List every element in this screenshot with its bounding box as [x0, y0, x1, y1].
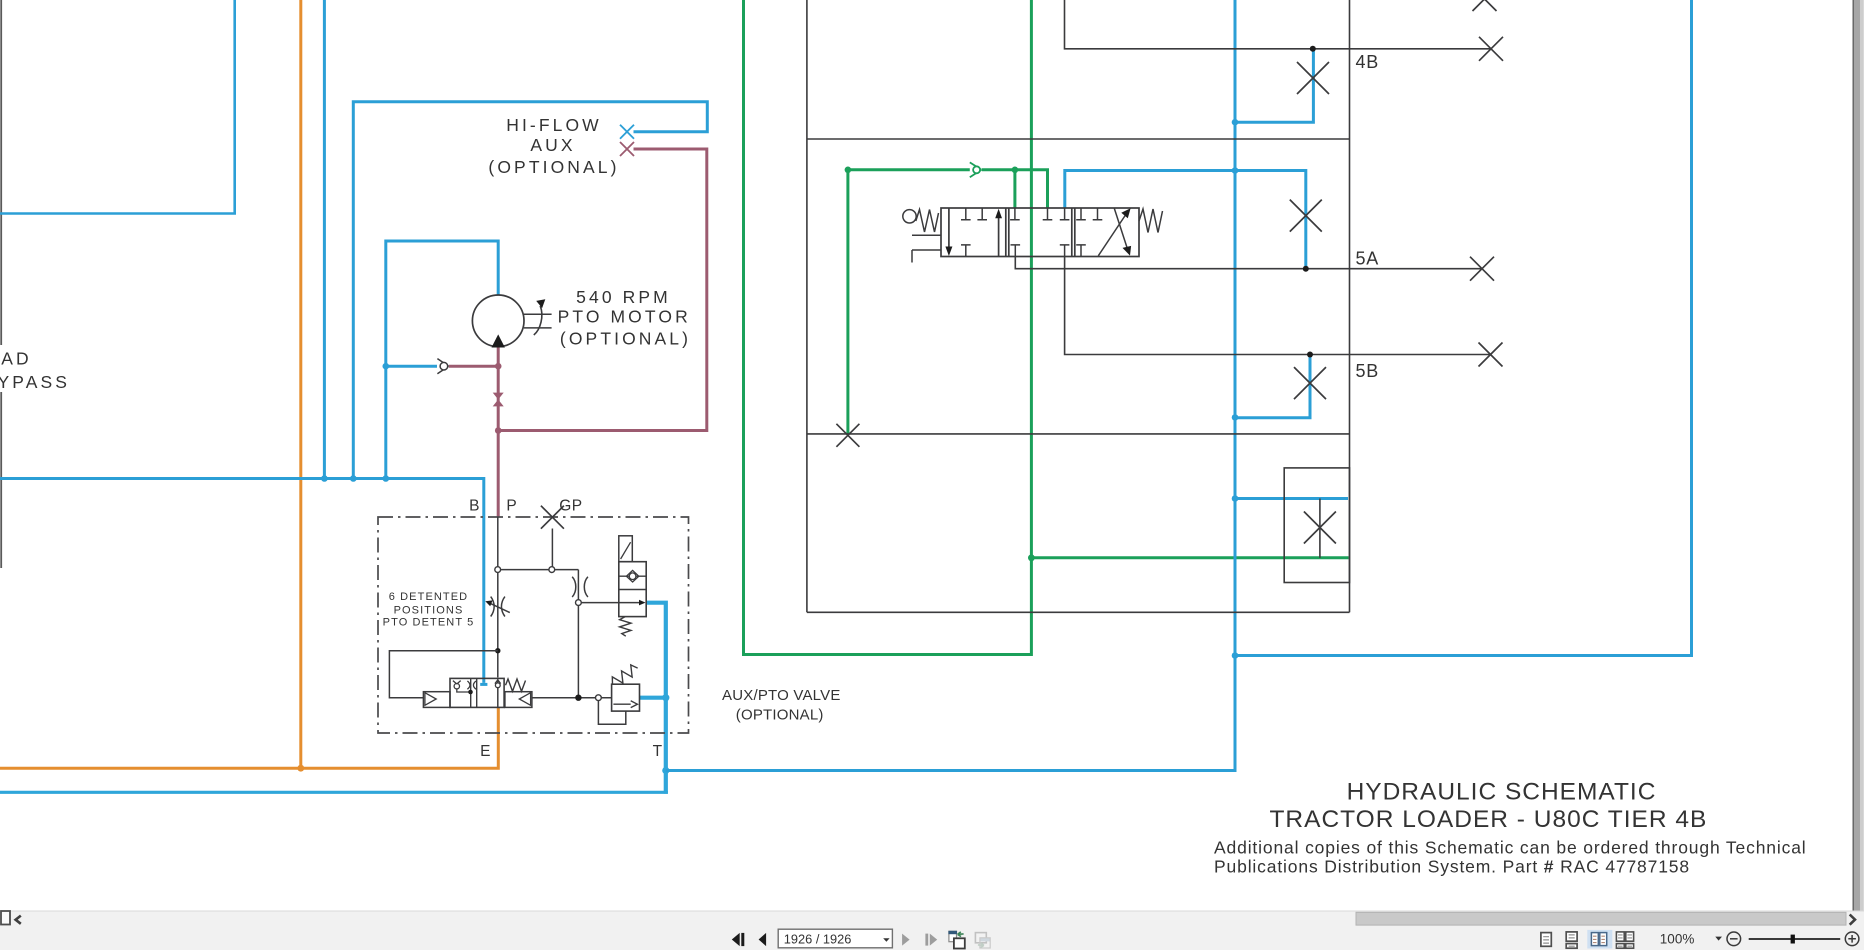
node: X orifice on 5B jumper [1294, 367, 1326, 399]
wire: spool P passage up arrow [497, 679, 499, 707]
node: blue X hi-flow line end [620, 125, 634, 139]
wire: green pilot header with check valve gap [848, 170, 1048, 208]
node: black dot 4B junction [1310, 46, 1316, 52]
svg-text:5A: 5A [1356, 248, 1380, 268]
wire: relief pilot feedback [598, 701, 625, 725]
wire: chamber 1 up arrow [998, 217, 1000, 257]
node: X orifice on 4B jumper [1297, 62, 1329, 94]
wire: blue relief output [640, 696, 666, 700]
node: dot at pilot drop junction [575, 695, 581, 701]
node: chamber 2 top ports [1010, 208, 1069, 220]
component: valve pilot cap circle [903, 210, 916, 223]
node: black dot 5A junction [1303, 266, 1309, 272]
svg-text:PTO MOTOR: PTO MOTOR [558, 307, 691, 327]
component: motor rotation arrow [534, 306, 542, 335]
component: spool return spring [506, 679, 526, 691]
node: junction circle to pilot valve [576, 600, 582, 606]
component: valve right spring [1139, 209, 1163, 233]
component: 540 RPM PTO motor circle [472, 295, 524, 347]
node: X plug at 5B line end [1479, 343, 1503, 367]
node: plugged port X on green line end [836, 424, 859, 447]
node: chamber 1 top ports [961, 208, 987, 220]
node: chamber 2 bottom ports [1011, 245, 1070, 257]
component: relief valve spring tilted [609, 663, 640, 689]
wire: 5A work port line [1015, 257, 1482, 269]
svg-text:E: E [480, 743, 491, 760]
node: GP gauge port X on enclosure [541, 506, 564, 529]
component: pilot solenoid valve body [619, 562, 646, 617]
wire: orifice box internal vertical [1319, 499, 1321, 558]
valve: relief valve body [612, 684, 640, 711]
wire: green tank line left vertical and bottom run [744, 0, 1032, 655]
component: pilot solenoid coil box [619, 536, 633, 562]
wire: blue B-port supply line [0, 479, 484, 683]
viewer: two page continuous icon [1616, 932, 1633, 948]
svg-text:100%: 100% [1660, 932, 1695, 947]
viewer: zoom dropdown caret [1715, 937, 1722, 941]
wire: P-port line inside enclosure [497, 517, 499, 678]
viewer: next page button disabled [902, 934, 910, 946]
wire: maroon hi-flow return [498, 149, 707, 431]
node: X plug at 5A line end [1470, 257, 1494, 281]
viewer: first page button [732, 933, 740, 946]
viewer: scroll right chevron [1850, 915, 1855, 925]
svg-text:P: P [506, 498, 517, 515]
node: green junction dot [1028, 554, 1035, 561]
wire: blue 5A feed [1065, 171, 1306, 269]
node: X orifice inside box [1304, 512, 1336, 544]
component: venturi orifice curves [572, 577, 588, 597]
svg-text:GP: GP [559, 498, 582, 515]
svg-text:Publications Distribution Syst: Publications Distribution System. Part #… [1214, 857, 1690, 877]
wire: blue 4B jumper [1235, 49, 1313, 122]
viewer: scroll left chevron [16, 916, 21, 924]
svg-text:(OPTIONAL): (OPTIONAL) [488, 157, 619, 177]
wire: valve block divider row 1 [807, 138, 1350, 140]
valve: AUX spool valve body [450, 678, 504, 707]
wire: spool chamber 1 down arrow [948, 208, 950, 249]
component: pilot valve spring below [620, 617, 631, 637]
node: maroon X line end [620, 142, 634, 156]
wire: blue supply vertical 1 [323, 0, 326, 479]
wire: pilot drop with venturi orifice [577, 570, 579, 698]
wire: valve block left border [806, 0, 808, 612]
viewer: two page view icon selected [1587, 930, 1612, 949]
svg-text:POSITIONS: POSITIONS [394, 604, 464, 616]
wire: blue 5B jumper [1235, 355, 1310, 418]
wire: pilot gallery horizontal [501, 569, 579, 571]
component: valve left cap bracket [912, 235, 941, 262]
component: adjustable flow restrictor on P line [491, 597, 505, 617]
node: X plug at 4B line end [1479, 37, 1503, 61]
component: AUX/PTO valve dashed enclosure [378, 517, 689, 733]
wire: valve block right border [1349, 0, 1351, 612]
wire: blue main pressure vertical and T-branch [666, 0, 1235, 771]
viewer: scrollbar corner box [1, 911, 10, 925]
svg-text:5B: 5B [1356, 361, 1380, 381]
wire: solenoid feedback loop [389, 651, 497, 698]
wire: blue motor loop [386, 241, 498, 479]
wire: line valve to relief junction [532, 697, 612, 699]
component: relief valve arrow [613, 701, 637, 708]
node: motor flow arrow [492, 334, 505, 347]
component: motor shaft lines [524, 314, 552, 328]
wire: maroon check valve to motor line [449, 365, 498, 368]
node: green junction dots [845, 167, 1019, 174]
component: check element in pilot valve [626, 570, 638, 582]
valve: shut-off bowtie on motor drain [493, 393, 504, 407]
svg-text:HYDRAULIC SCHEMATIC: HYDRAULIC SCHEMATIC [1347, 778, 1657, 805]
wire: blue bottom run to right riser [1235, 0, 1692, 656]
svg-text:(OPTIONAL): (OPTIONAL) [560, 328, 691, 348]
svg-text:4B: 4B [1356, 52, 1380, 72]
viewer: next view icon disabled [975, 933, 990, 948]
node: X orifice on 5A feed [1290, 200, 1322, 232]
wire: blue hi-flow loop [353, 102, 707, 479]
component: valve left spring [916, 210, 939, 233]
component: right solenoid actuator [505, 692, 532, 708]
wire: maroon motor drain vertical [497, 347, 500, 517]
node: maroon junction dots [495, 363, 502, 370]
node: chamber 3 top ports [1076, 208, 1102, 220]
svg-text:(OPTIONAL): (OPTIONAL) [736, 707, 824, 724]
wire: feed arrow into pilot solenoid valve [581, 602, 640, 604]
svg-text:HI-FLOW: HI-FLOW [506, 115, 602, 135]
wire: orange E-port tank line [0, 707, 498, 768]
wire: green drop to plugged port [846, 170, 849, 434]
wire: blue stub to motor check valve [386, 365, 437, 368]
viewer: bottom bar background [0, 911, 1864, 950]
wire: valve block bottom border [807, 611, 1350, 613]
viewer: zoom in button [1845, 932, 1859, 946]
node: chamber 3 bottom port [1076, 245, 1086, 257]
wire: 4B work port line [1065, 0, 1492, 49]
node: chamber 1 bottom port [961, 245, 971, 257]
viewer: single page view icon [1541, 933, 1551, 947]
viewer: last page button disabled [925, 934, 928, 946]
component: left solenoid actuator [423, 692, 450, 708]
node: orange junction dot [297, 765, 304, 772]
svg-text:6 DETENTED: 6 DETENTED [389, 591, 468, 603]
component: green check valve [970, 162, 982, 177]
valve: main directional spool valve body U1 [941, 208, 1139, 257]
node: blue junction dots on supply header [321, 363, 389, 482]
svg-text:PTO DETENT 5: PTO DETENT 5 [383, 617, 475, 629]
node: B-port line end bar [480, 683, 487, 686]
wire: blue branch into orifice box [1235, 497, 1348, 500]
wire: GP line down from X [551, 529, 553, 567]
wire: green branch to orifice box [1031, 556, 1348, 559]
svg-text:TRACTOR LOADER - U80C TIER 4B: TRACTOR LOADER - U80C TIER 4B [1269, 806, 1707, 833]
svg-text:YPASS: YPASS [0, 372, 70, 392]
node: partial X plug at top edge [1473, 0, 1497, 11]
wire: blue T-port return thick line [646, 603, 666, 794]
viewer: horizontal scrollbar thumb [1356, 912, 1846, 925]
viewer: previous page button [759, 933, 767, 946]
node: blue dots on T line [662, 694, 669, 774]
wire: 5B work port line [1065, 257, 1491, 355]
component: spool cell orifice [467, 681, 476, 689]
wire: valve block divider row 2 [807, 433, 1350, 435]
wire: cut-off component edge at left margin [0, 0, 2, 568]
wire: chamber 3 crossed arrows [1098, 214, 1126, 256]
svg-text:1926 / 1926: 1926 / 1926 [784, 932, 852, 947]
wire: orange pilot vertical line [299, 0, 302, 768]
component: check valve at motor inlet [437, 359, 448, 374]
component: spool cell check valve [453, 681, 461, 684]
viewer: zoom out button [1727, 932, 1741, 946]
node: black dot 5B junction [1307, 352, 1313, 358]
wire: blue return box top-left [0, 0, 235, 214]
viewer: previous view icon [948, 931, 964, 949]
viewer: page number box [778, 929, 892, 948]
svg-text:B: B [469, 498, 480, 515]
component: orifice box lower right [1284, 468, 1349, 583]
svg-text:AUX/PTO VALVE: AUX/PTO VALVE [722, 687, 840, 704]
svg-text:T: T [653, 743, 663, 760]
node: junction circles on pilot gallery [495, 567, 501, 573]
node: dot feedback junction on P line [495, 648, 500, 653]
viewer: continuous view icon [1566, 932, 1577, 941]
node: blue junction dots right side [1232, 119, 1239, 659]
svg-text:AUX: AUX [530, 135, 575, 155]
svg-text:Additional copies of this Sche: Additional copies of this Schematic can … [1214, 837, 1807, 857]
node: open circle relief pilot tap [596, 695, 602, 701]
svg-text:540 RPM: 540 RPM [576, 287, 671, 307]
viewer: vertical scrollbar [1853, 0, 1864, 911]
svg-text:EAD: EAD [0, 348, 32, 368]
viewer: zoom slider [1749, 938, 1841, 940]
